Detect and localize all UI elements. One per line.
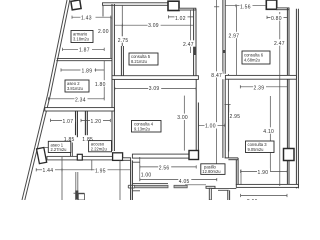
connector band B4 [123,158,131,161]
svg-text:2.97: 2.97 [229,33,240,39]
svg-text:1.80: 1.80 [95,82,106,88]
room label consulta 5 [129,53,158,65]
top wall band (armario/consulta5 north) [103,3,169,6]
svg-text:2.39: 2.39 [254,85,265,91]
bottom hline pair east of T a [212,188,236,190]
dim text 2.95 [229,113,242,121]
aseo1/shaft wall vertical a [75,111,77,137]
dim text 3.00 [177,114,190,122]
consulta3 west wall lower line b [237,158,239,185]
left bottom vertical pair a [75,172,77,200]
svg-text:9.13m2u: 9.13m2u [134,127,150,132]
bottom wall band B6 east [174,185,187,188]
consulta3 west wall lower line a [235,160,237,186]
svg-text:2.00: 2.00 [98,29,109,35]
stair rung bracket top [128,184,134,186]
dim text 1.20 [90,117,103,125]
wall band left (top of aseo1/acceso) [45,108,115,111]
svg-text:1.00: 1.00 [205,124,216,130]
dim 2.00 line [110,17,112,58]
right inner wall (consulta6 east) line a [286,8,288,149]
svg-text:1.43: 1.43 [81,16,92,22]
thin line above B6 [185,184,206,186]
dim 1.80 aseo2 line [103,61,105,99]
stair rung lower [132,190,140,192]
T door post stem [209,188,211,200]
dim text 2.34 [75,96,88,104]
consulta6/consulta3 divider band B2 [225,75,296,79]
corridor right wall inner line c [227,74,229,158]
room label acceso [89,141,112,152]
dim text 1.43 [81,14,96,22]
window fill on corridor right wall [223,50,226,53]
dim text 1.95 [95,167,108,175]
dim 2.56 line [140,166,196,168]
pasillo NE corner horizontal a [225,157,239,159]
column C3 (pasillo entry) [189,151,199,160]
dim text 2.00 [98,27,111,35]
dim text 1.02 [175,14,188,22]
dim 1.87 line [63,48,105,50]
column top-right [266,0,276,9]
svg-text:2.34: 2.34 [75,97,86,103]
stair rung top [132,161,140,163]
svg-text:1.87: 1.87 [79,48,90,54]
column C4 right [284,149,295,161]
bottom wall band B6 west [135,185,168,188]
dim 4.10 line [269,96,271,171]
left bottom thin vertical x62 [61,157,63,200]
dim text 4.10 [263,127,276,135]
corridor left wall lower line b [197,103,199,151]
svg-text:1.95: 1.95 [95,169,106,175]
dim 3.00 line [183,96,185,151]
dim 0.80 line [267,16,287,18]
corridor right wall line b [224,0,226,74]
svg-text:1.02: 1.02 [175,16,186,22]
dim text 1.00 corridor [205,122,218,130]
dim text 1.85 right [82,135,95,143]
svg-text:3.81m2u: 3.81m2u [67,86,83,91]
consulta5 left wall double lower a [120,46,122,76]
dim text 1.44 [42,167,55,175]
dim text 3.09 mid [148,84,161,92]
dim 1.20 line [81,120,110,122]
svg-text:1.07: 1.07 [63,119,74,125]
svg-text:2.66: 2.66 [247,199,258,200]
svg-text:4.10: 4.10 [263,129,274,135]
shaft/acceso wall vertical a [84,111,86,137]
consulta5 left wall double lower b [122,46,124,76]
main vertical wall W1 line a [111,4,113,151]
dim 1.43 line [72,16,111,18]
armario/aseo2 divider wall [57,57,112,59]
small white box bottom-left [78,194,84,200]
dim text 3.09 top [148,21,161,29]
door jamb block column [77,154,82,160]
lower-left thick vertical wall line b [131,160,133,200]
svg-text:12.80m2u: 12.80m2u [202,169,220,174]
tilted column top-left [71,0,81,10]
dim text 2.97 [228,32,241,40]
room label aseo 1 [48,141,71,152]
svg-text:1.20: 1.20 [91,119,102,125]
right outer wall line a [295,9,297,189]
dim 2.39 line [240,86,287,88]
dim text 0.80 [271,14,284,22]
dim 1.90 line [241,170,288,172]
stair rung bracket left [127,185,129,188]
svg-text:3.00: 3.00 [177,115,188,121]
dim text 8.47 [211,71,223,79]
svg-text:2.56: 2.56 [159,165,170,171]
stair rung upper [132,182,168,184]
svg-text:2.95: 2.95 [230,114,241,120]
dim 1.07 line [51,119,76,121]
dim 1.44 line [36,169,62,171]
dim text 2.47 left [183,40,196,48]
svg-text:2.75: 2.75 [118,38,129,44]
room label consulta 4 [132,121,162,133]
dim 2.34 line [48,98,104,100]
aseo zone bottom wall band [47,156,113,160]
svg-text:2.22m2u: 2.22m2u [91,147,107,152]
bottom hline pair east of T b [218,189,229,191]
right inner wall line b [288,8,290,149]
wall notch left vertical [102,5,104,16]
svg-text:1.00: 1.00 [141,173,152,179]
svg-text:2.47: 2.47 [274,41,285,47]
svg-text:4.68m2u: 4.68m2u [244,58,260,63]
room label consulta 3 [246,141,275,153]
consulta4 bottom wall band B5 [132,154,189,158]
dim text 2.47 right [274,39,287,47]
room label consulta 6 [242,51,270,64]
room label aseo 2 [65,80,89,92]
dim 3.09 top line [115,24,194,26]
corridor left wall lower line a [195,79,197,150]
diagonal exterior wall outer line [22,0,67,200]
column C2 [113,153,123,161]
aseo1 door jamb vertical pair a [70,143,72,157]
svg-text:2.27m2u: 2.27m2u [51,147,67,152]
svg-text:8.47: 8.47 [211,73,222,79]
dim text 2.56 [158,164,171,172]
dim 1.00 pasillo vertical line [139,157,141,181]
consulta5/consulta4 divider band B1 [112,76,198,80]
svg-text:1.89: 1.89 [82,68,93,74]
dim 8.47 line [215,0,217,171]
consulta5 right wall line b [195,9,197,76]
dim 1.89 line [61,69,104,71]
tilted chimney column on diagonal [37,148,47,164]
aseo1 pointer tick [44,147,48,149]
T door post cap [206,186,215,188]
dim text 1.87 [78,46,92,54]
dim text 2.75 [117,36,131,44]
dim 2.75 line [121,25,123,46]
svg-text:9.05m2u: 9.05m2u [248,147,264,152]
svg-text:3.09: 3.09 [149,86,160,92]
column top-center [168,1,179,10]
dim text 1.85 left [63,135,76,143]
svg-text:3.18m2u: 3.18m2u [73,37,89,42]
lower-left thick vertical wall line a [130,160,132,200]
dim 2.66 line [241,195,287,197]
dim 4.05 line [140,179,217,181]
hline at meter box [74,192,85,194]
diagonal exterior wall inner line [25,0,70,200]
dim 1.90 extension [240,170,242,186]
aseo1 door jamb vertical pair b [71,143,73,157]
dim 1.00 corridor line [199,124,225,126]
bottom wall band B8 [236,184,298,187]
bottom stub below corridor right a [227,190,229,200]
svg-text:4.05: 4.05 [179,179,190,185]
svg-text:1.90: 1.90 [258,170,269,176]
svg-text:0.80: 0.80 [271,16,282,22]
dim 2.47 right / wall thin vertical [279,12,281,186]
dim text 1.56 [240,3,253,11]
acceso door extension vline [91,160,93,170]
dim text 1.80 [94,80,107,88]
svg-text:3.09: 3.09 [148,23,159,29]
dim 2.95 line [228,104,230,151]
dim 1.95 line [62,169,131,171]
dim text 4.05 [178,177,191,185]
dim 1.56 line [225,5,266,7]
consulta5 left wall thin upper [121,5,123,46]
top-right wall band [277,8,289,10]
dim 2.47 left line [190,10,192,53]
wall band from column to consulta5 right wall [179,8,196,10]
room label armario [71,31,93,43]
dim 1.02 line [169,16,194,18]
dim text 1.89 [81,67,95,75]
main vertical wall W1 line b [113,4,115,151]
svg-text:1.56: 1.56 [240,4,251,10]
dim text 2.66 [246,197,259,205]
room label pasillo [201,164,225,175]
bottom stub below corridor right b [229,190,231,200]
window fill on consulta5 right wall [193,44,196,56]
svg-text:2.47: 2.47 [183,42,194,48]
pasillo NE corner horizontal b [228,159,238,161]
dim 2.97 line [235,6,237,76]
dark meter block [75,191,78,200]
consulta5 right wall line a [193,9,195,76]
dim text 2.39 [253,84,266,92]
dim text 1.07 [62,117,75,125]
corridor right wall line a [222,0,224,74]
corridor lower right wall line [222,79,224,158]
aseo1/shaft wall vertical b [76,111,78,137]
shaft/acceso wall vertical b [86,111,88,137]
svg-text:8.21m2u: 8.21m2u [131,59,147,64]
dim text 1.00 pasillo [140,171,152,179]
left bottom vertical pair b [77,172,79,200]
stair rung bracket bottom [128,187,134,189]
dim text 1.90 [257,168,270,176]
thin vertical x120 [119,161,121,201]
svg-text:1.44: 1.44 [43,168,54,174]
right outer wall line b [297,9,299,189]
dim 3.09 mid line [115,88,196,90]
